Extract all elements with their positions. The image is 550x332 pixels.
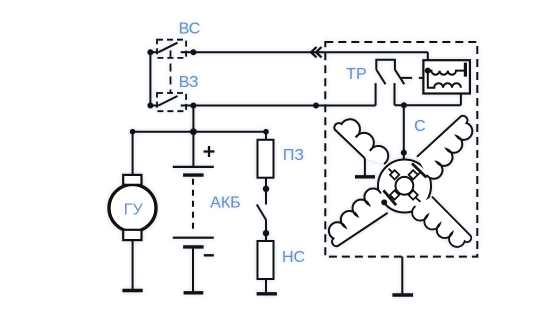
svg-text:ПЗ: ПЗ (283, 147, 304, 164)
svg-text:ВС: ВС (179, 21, 201, 38)
svg-text:НС: НС (282, 249, 305, 266)
svg-text:ГУ: ГУ (124, 201, 144, 218)
svg-text:АКБ: АКБ (210, 194, 241, 211)
svg-text:ВЗ: ВЗ (179, 74, 199, 91)
svg-text:ТР: ТР (346, 66, 366, 83)
svg-text:С: С (414, 118, 426, 135)
